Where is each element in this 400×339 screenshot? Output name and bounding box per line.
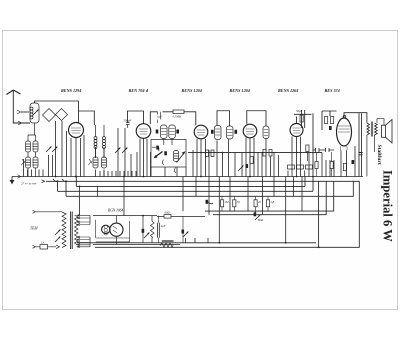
svg-text:27 v= to wvr: 27 v= to wvr	[21, 182, 37, 186]
svg-text:1M: 1M	[225, 200, 230, 204]
svg-text:RENS 1204: RENS 1204	[182, 88, 202, 93]
svg-text:500pF: 500pF	[124, 119, 132, 123]
svg-text:RENS 1204: RENS 1204	[230, 88, 250, 93]
svg-text:1µF: 1µF	[157, 115, 162, 119]
svg-text:8kΩ: 8kΩ	[258, 218, 264, 222]
svg-text:Staßfurt: Staßfurt	[376, 145, 382, 165]
svg-text:45: 45	[258, 200, 262, 204]
svg-text:50pF: 50pF	[296, 109, 303, 113]
svg-text:RES 374: RES 374	[325, 88, 340, 93]
svg-text:RENS 1294: RENS 1294	[61, 88, 81, 93]
svg-text:RGN 1064: RGN 1064	[107, 209, 123, 213]
svg-text:50: 50	[237, 200, 241, 204]
svg-text:TEM: TEM	[30, 227, 38, 231]
svg-text:4µF: 4µF	[161, 224, 166, 228]
svg-text:1A: 1A	[41, 241, 45, 245]
svg-text:RENS 1264: RENS 1264	[278, 88, 298, 93]
svg-text:Imperial 6 W: Imperial 6 W	[381, 170, 395, 242]
svg-text:REN 704-d: REN 704-d	[129, 88, 149, 93]
svg-text:60Ω: 60Ω	[165, 211, 171, 215]
